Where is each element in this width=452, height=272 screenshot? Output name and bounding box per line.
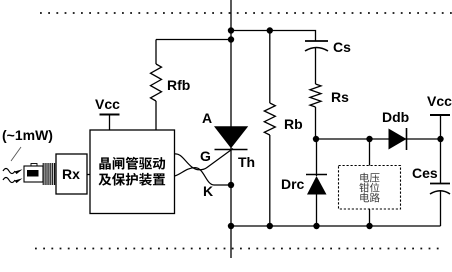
- node junction at 369.5,139: [366, 136, 372, 142]
- thyristor Th: [214, 126, 248, 148]
- diode Ddb: [389, 129, 407, 150]
- clamp box: voltage clamp circuit (dashed): [339, 166, 401, 210]
- wire: main vertical line (anode/cathode rail): [230, 0, 232, 258]
- label char 装: [139, 173, 152, 186]
- top AC bus (dotted line): [40, 12, 452, 14]
- label char 保: [112, 173, 125, 186]
- capacitor Cs: [305, 40, 328, 42]
- label char 管: [126, 157, 138, 170]
- wire: gate (wavy): [175, 149, 234, 170]
- label char 闸: [113, 157, 125, 170]
- label char 及: [99, 174, 112, 186]
- svg-text:Drc: Drc: [281, 176, 305, 192]
- wire: Rx to driver box: [87, 174, 90, 176]
- label char 压: [370, 173, 380, 182]
- label char 护: [126, 173, 138, 186]
- wire: top rail to snubber branch: [231, 31, 316, 42]
- diode Drc: [316, 139, 318, 176]
- node junction at 369.5,226: [366, 223, 372, 229]
- receiver box Rx: [56, 154, 87, 194]
- svg-text:Rx: Rx: [62, 166, 80, 182]
- svg-text:Cs: Cs: [333, 39, 351, 55]
- label char 位: [370, 183, 380, 193]
- svg-text:(~1mW): (~1mW): [2, 127, 53, 143]
- svg-text:Th: Th: [238, 154, 255, 170]
- svg-text:Rs: Rs: [331, 89, 349, 105]
- wire: bottom cathode rail: [231, 225, 441, 227]
- node junction at 231,226: [228, 223, 234, 229]
- fiber-optic connector body: [24, 166, 43, 182]
- label char 电: [360, 193, 369, 203]
- fiber-optic connector (threaded block): [42, 163, 44, 185]
- label char 置: [153, 173, 165, 185]
- svg-text:Ddb: Ddb: [382, 109, 409, 125]
- label char 钳: [359, 183, 369, 193]
- label char 路: [370, 193, 380, 203]
- label char 电: [360, 173, 369, 183]
- driver box U1: thyristor drive & protection device: [90, 130, 175, 214]
- svg-text:Ces: Ces: [412, 165, 438, 181]
- svg-text:Vcc: Vcc: [95, 96, 120, 112]
- resistor Rb: [269, 31, 271, 104]
- wire: cathode return (wavy): [175, 168, 232, 185]
- node junction at 231,185: [228, 182, 234, 188]
- resistor Rfb: [155, 40, 157, 65]
- node junction at 316.5,226: [313, 223, 319, 229]
- label char 驱: [139, 157, 152, 169]
- label char 晶: [99, 157, 110, 169]
- light ray diagonal: [11, 147, 21, 161]
- svg-text:A: A: [202, 110, 212, 126]
- node junction at 231,30.5: [228, 27, 234, 33]
- resistor Rs: [310, 84, 321, 107]
- svg-text:Vcc: Vcc: [427, 93, 452, 109]
- svg-text:G: G: [200, 148, 211, 164]
- node junction at 231,39.5: [228, 36, 234, 42]
- svg-text:Rb: Rb: [284, 116, 303, 132]
- light input arrows: [3, 169, 15, 174]
- wire: Rfb top to vertical line: [156, 39, 231, 41]
- svg-text:K: K: [203, 183, 213, 199]
- bottom AC bus (dotted line): [35, 248, 445, 250]
- capacitor Ces: [440, 139, 442, 184]
- node junction at 269.8,30.5: [267, 27, 273, 33]
- node junction at 316,139: [313, 136, 319, 142]
- svg-text:Rfb: Rfb: [167, 77, 190, 93]
- node junction at 269.8,226: [267, 223, 273, 229]
- label char 动: [153, 157, 165, 170]
- node junction at 440.5,139: [437, 136, 443, 142]
- wire: clamp rail: [316, 138, 441, 140]
